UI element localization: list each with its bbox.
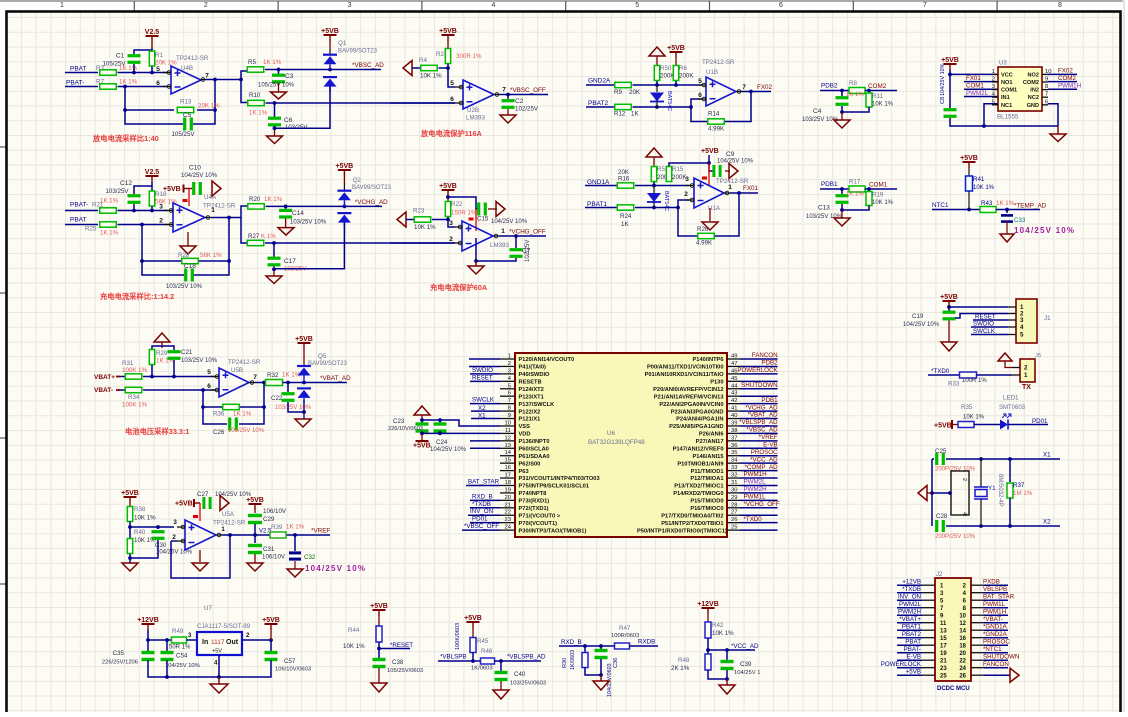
svg-text:104/25V 10%: 104/25V 10% bbox=[165, 663, 200, 669]
text discharge protection label bbox=[420, 129, 483, 138]
net label SHUTDOWN + wire bbox=[740, 382, 778, 389]
svg-text:1K 1%: 1K 1% bbox=[846, 192, 864, 198]
svg-text:SWCLK: SWCLK bbox=[472, 397, 495, 404]
resistor R33 bbox=[948, 372, 987, 388]
svg-text:104/25V/0603: 104/25V/0603 bbox=[607, 663, 613, 697]
diode D1 bbox=[647, 186, 669, 212]
resistor R5 bbox=[247, 59, 281, 72]
svg-text:+5VB: +5VB bbox=[439, 28, 457, 35]
net label PBAT1 bbox=[587, 201, 607, 208]
svg-text:226/25V/1206: 226/25V/1206 bbox=[102, 660, 138, 666]
net label *VBAT+ (J2 left) bbox=[897, 616, 922, 623]
svg-text:BAT54C: BAT54C bbox=[666, 91, 672, 111]
svg-text:1117: 1117 bbox=[211, 639, 225, 646]
wire V2.5 to R1/C1 bbox=[134, 48, 152, 54]
svg-text:1K/0603: 1K/0603 bbox=[471, 666, 493, 672]
svg-text:36: 36 bbox=[731, 443, 737, 449]
svg-text:2: 2 bbox=[172, 534, 176, 541]
svg-text:1: 1 bbox=[501, 228, 505, 235]
svg-text:7: 7 bbox=[253, 374, 257, 381]
svg-text:PWM2H: PWM2H bbox=[744, 486, 767, 493]
svg-text:6: 6 bbox=[779, 2, 783, 9]
svg-text:*VBSC_OFF: *VBSC_OFF bbox=[464, 523, 499, 530]
svg-text:45: 45 bbox=[731, 376, 737, 382]
wire FX01 to U3 pin2 bbox=[964, 81, 998, 83]
opamp supply red line U1A bbox=[702, 163, 709, 186]
svg-text:4: 4 bbox=[961, 512, 967, 515]
net label X2 + wire pin8 bbox=[471, 405, 500, 412]
svg-text:+5VB: +5VB bbox=[934, 423, 952, 430]
wire R32 to VBAT_AD bbox=[283, 381, 348, 385]
opamp supply red line U5A bbox=[193, 503, 200, 521]
svg-text:FANCON: FANCON bbox=[752, 352, 778, 359]
svg-text:P63: P63 bbox=[519, 469, 529, 475]
power +5VB (R38) bbox=[121, 490, 139, 503]
wire VSS rail bbox=[420, 418, 500, 426]
svg-text:U5A: U5A bbox=[222, 511, 235, 518]
svg-text:R20: R20 bbox=[249, 196, 261, 203]
power V2.5 (cluster2) bbox=[145, 169, 160, 182]
net label VCHG_OFF bbox=[509, 229, 546, 236]
feedback wire R26 bbox=[678, 193, 739, 236]
svg-text:47: 47 bbox=[731, 361, 737, 367]
op-amp U4A bbox=[159, 194, 236, 232]
svg-text:P71/(VCOUT0 >: P71/(VCOUT0 > bbox=[519, 513, 561, 519]
svg-text:VBAT-: VBAT- bbox=[94, 387, 113, 394]
svg-text:41: 41 bbox=[731, 406, 737, 412]
capacitor C7 bbox=[510, 236, 532, 262]
svg-text:R19: R19 bbox=[872, 192, 884, 199]
svg-text:VCC: VCC bbox=[1001, 72, 1013, 78]
svg-text:13: 13 bbox=[505, 443, 511, 449]
resistor R30 (bottom) bbox=[562, 646, 588, 670]
svg-text:C6: C6 bbox=[284, 117, 293, 124]
resistor R23 bbox=[406, 208, 436, 232]
resistor R9 bbox=[614, 82, 641, 96]
svg-text:20: 20 bbox=[959, 651, 966, 657]
svg-text:C21: C21 bbox=[181, 349, 193, 356]
svg-text:*VREF: *VREF bbox=[759, 434, 778, 441]
net label TXD0 + wire bbox=[740, 516, 778, 523]
svg-text:TP2412-SR: TP2412-SR bbox=[203, 203, 236, 210]
wire U4A output bbox=[211, 216, 241, 220]
svg-text:FX02: FX02 bbox=[757, 84, 773, 91]
capacitor C25 bbox=[935, 448, 947, 465]
wire R23/R22 to U2A +in bbox=[432, 217, 455, 227]
capacitor C19 bbox=[903, 307, 956, 328]
svg-text:RESETB: RESETB bbox=[519, 380, 542, 386]
svg-text:40: 40 bbox=[731, 413, 737, 419]
svg-text:+5VB: +5VB bbox=[413, 443, 431, 450]
svg-text:+5VB: +5VB bbox=[295, 336, 313, 343]
wire COM1 to U3 pin3 bbox=[964, 88, 998, 90]
svg-text:P140/INTP6: P140/INTP6 bbox=[693, 357, 724, 363]
svg-text:25: 25 bbox=[731, 525, 737, 531]
capacitor C27 bbox=[197, 491, 252, 509]
wire J2 pin26 to arrow bbox=[984, 668, 1019, 682]
svg-text:49: 49 bbox=[731, 354, 737, 360]
wire U1B out to FX02 bbox=[742, 90, 771, 94]
wire NTC1 to R43 bbox=[932, 191, 980, 211]
svg-text:PDB2: PDB2 bbox=[821, 83, 838, 90]
svg-text:10K 1%: 10K 1% bbox=[414, 224, 436, 231]
svg-text:19: 19 bbox=[505, 487, 511, 493]
capacitor C17 bbox=[268, 243, 307, 276]
svg-text:U5B: U5B bbox=[231, 367, 243, 374]
wire PBAT to R3 bbox=[65, 72, 98, 74]
power +12VB (U7) bbox=[137, 617, 159, 630]
svg-text:8: 8 bbox=[1045, 84, 1048, 90]
text LED1 designator bbox=[999, 395, 1026, 412]
ground R30/C36 bbox=[593, 675, 609, 690]
resistor R39 bbox=[270, 524, 305, 539]
svg-text:GND: GND bbox=[1027, 103, 1039, 109]
ground under C33 bbox=[1000, 221, 1014, 242]
net label COMP_AD + wire bbox=[740, 464, 778, 471]
svg-text:104/25V 10%: 104/25V 10% bbox=[717, 159, 754, 165]
svg-text:R34: R34 bbox=[128, 394, 140, 401]
svg-text:+5VB: +5VB bbox=[163, 186, 181, 193]
svg-text:P41/(TAI0): P41/(TAI0) bbox=[519, 365, 546, 371]
svg-text:42: 42 bbox=[731, 398, 737, 404]
wire R27 right bbox=[265, 241, 455, 245]
svg-text:*VBSC_AD: *VBSC_AD bbox=[352, 62, 384, 69]
svg-text:放电电流采样比1:40: 放电电流采样比1:40 bbox=[92, 134, 159, 143]
svg-text:NTC1: NTC1 bbox=[932, 202, 949, 209]
svg-text:R45: R45 bbox=[477, 638, 489, 645]
svg-text:1: 1 bbox=[992, 69, 995, 75]
connector J1 bbox=[1008, 299, 1051, 343]
ground under C19 bbox=[941, 342, 957, 351]
svg-text:7: 7 bbox=[923, 2, 927, 9]
svg-text:4.99K: 4.99K bbox=[708, 126, 725, 133]
wire C8 bottom rail bbox=[950, 118, 1058, 126]
svg-text:C32: C32 bbox=[304, 554, 316, 561]
svg-text:5: 5 bbox=[1020, 332, 1024, 339]
net label COM2 (U3) bbox=[1058, 75, 1076, 82]
svg-text:200K: 200K bbox=[679, 73, 694, 80]
svg-text:FX02: FX02 bbox=[1058, 68, 1073, 75]
resistor R41 bbox=[966, 168, 995, 191]
capacitor C18 bbox=[166, 263, 203, 290]
wire +5VB down to R15 top bbox=[669, 155, 730, 171]
svg-text:R50: R50 bbox=[660, 65, 672, 72]
svg-text:P62/S00: P62/S00 bbox=[519, 461, 541, 467]
power arrow right (U4A cap) bbox=[212, 181, 221, 196]
wire C4/R11 bottom bbox=[840, 106, 869, 120]
svg-text:17: 17 bbox=[505, 473, 511, 479]
svg-text:106/10V: 106/10V bbox=[262, 554, 286, 561]
svg-text:Q5: Q5 bbox=[318, 353, 327, 360]
svg-text:1: 1 bbox=[60, 2, 64, 9]
svg-text:P00/ANI11/TXD1/VCIN10TI00: P00/ANI11/TXD1/VCIN10TI00 bbox=[647, 365, 724, 371]
wire R25 to U4A -in bbox=[118, 223, 169, 227]
resistor R47 bbox=[611, 625, 639, 649]
wire C40 to gnd bbox=[500, 681, 502, 690]
wire MCU pin27 bbox=[740, 514, 778, 516]
svg-text:7: 7 bbox=[742, 84, 746, 91]
svg-text:33: 33 bbox=[731, 465, 737, 471]
svg-text:充电电流保护60A: 充电电流保护60A bbox=[430, 283, 488, 292]
resistor R42 bbox=[705, 614, 734, 638]
svg-text:105/25V 10%: 105/25V 10% bbox=[258, 83, 295, 89]
svg-text:2: 2 bbox=[1024, 365, 1028, 372]
svg-text:5: 5 bbox=[992, 99, 995, 105]
resistor R3 bbox=[96, 65, 138, 75]
svg-text:8: 8 bbox=[508, 406, 511, 412]
power arrow up (R51) bbox=[646, 148, 662, 157]
svg-text:C12: C12 bbox=[120, 180, 132, 187]
svg-text:P121/X1: P121/X1 bbox=[519, 417, 541, 423]
text battery sampling label bbox=[125, 427, 189, 436]
svg-text:R31: R31 bbox=[122, 360, 134, 367]
svg-text:DCDC MCU: DCDC MCU bbox=[937, 686, 970, 692]
svg-text:18: 18 bbox=[959, 643, 966, 649]
IC U6 BAT32G139LQFP48 bbox=[500, 353, 740, 537]
svg-text:P25/ANI5/PGA1GND: P25/ANI5/PGA1GND bbox=[669, 424, 723, 430]
svg-text:P30/INTP3/TAO/(TMIOB1): P30/INTP3/TAO/(TMIOB1) bbox=[519, 528, 587, 534]
net label FX01 (U3) bbox=[966, 75, 981, 82]
wire arrow to R29/C21 bbox=[152, 346, 174, 350]
net label PWM2L (U3) bbox=[966, 90, 989, 97]
svg-text:R33: R33 bbox=[948, 381, 960, 388]
capacitor C9 bbox=[712, 151, 753, 177]
svg-text:103/25V 10%: 103/25V 10% bbox=[275, 405, 312, 411]
power +5VB (R44) bbox=[370, 603, 388, 616]
wire PBAT to R25 bbox=[65, 224, 98, 226]
svg-text:C18: C18 bbox=[184, 263, 196, 270]
svg-text:R3: R3 bbox=[96, 65, 104, 72]
svg-text:10K 1%: 10K 1% bbox=[872, 200, 894, 206]
capacitor C57 bbox=[265, 640, 312, 673]
capacitor C12 bbox=[105, 180, 140, 204]
crystal package outline bbox=[932, 471, 969, 515]
svg-text:IN1: IN1 bbox=[1001, 95, 1010, 101]
svg-text:+5VB: +5VB bbox=[439, 183, 457, 190]
svg-text:38: 38 bbox=[731, 428, 737, 434]
text R35 designator bbox=[961, 404, 985, 421]
svg-text:*VBAT_AD: *VBAT_AD bbox=[320, 375, 351, 382]
resistor R14 bbox=[708, 111, 725, 133]
power +5VB down (C24) bbox=[413, 433, 431, 449]
capacitor C5 bbox=[171, 112, 195, 138]
svg-text:105/25V/0603: 105/25V/0603 bbox=[387, 668, 423, 674]
feedback wire U5A bbox=[171, 535, 230, 578]
power arrow left (crystal gnd) bbox=[918, 486, 932, 501]
wire -in up to pin6 bbox=[691, 99, 702, 107]
svg-text:20K 1%: 20K 1% bbox=[198, 103, 220, 110]
svg-text:RXD_B: RXD_B bbox=[472, 493, 493, 500]
svg-text:*VREF: *VREF bbox=[311, 528, 330, 535]
power arrow up (R50) bbox=[649, 47, 665, 56]
net label VBSC_AD bbox=[352, 62, 384, 69]
net label FX01 (U1A) bbox=[743, 185, 759, 192]
svg-text:P12/TMIOA1: P12/TMIOA1 bbox=[690, 476, 723, 482]
svg-text:1K 1%: 1K 1% bbox=[846, 92, 864, 98]
svg-text:P74/INPT8: P74/INPT8 bbox=[519, 491, 547, 497]
svg-text:NO2: NO2 bbox=[1027, 72, 1039, 78]
svg-text:V2.5: V2.5 bbox=[145, 29, 160, 36]
svg-text:14: 14 bbox=[505, 450, 512, 456]
svg-text:COM2: COM2 bbox=[1023, 80, 1039, 86]
resistor R46 bbox=[471, 648, 495, 672]
svg-text:100K 1%: 100K 1% bbox=[122, 402, 148, 409]
svg-text:+5VB: +5VB bbox=[940, 294, 958, 301]
svg-text:+5VB: +5VB bbox=[121, 490, 139, 497]
opamp supply red line U4A bbox=[183, 189, 190, 207]
net label INV_ON + wire pin22 bbox=[468, 508, 500, 515]
svg-text:31: 31 bbox=[731, 480, 737, 486]
svg-text:*VCHG_AD: *VCHG_AD bbox=[745, 404, 778, 411]
svg-text:15: 15 bbox=[505, 458, 511, 464]
svg-text:P137/SWCLK: P137/SWCLK bbox=[519, 402, 556, 408]
svg-text:*TXDB: *TXDB bbox=[472, 501, 491, 508]
capacitor C8 (U3) bbox=[940, 63, 957, 117]
svg-text:6: 6 bbox=[508, 391, 511, 397]
svg-text:C3: C3 bbox=[285, 73, 294, 80]
svg-text:150R 1%: 150R 1% bbox=[451, 210, 477, 217]
resistor R45 bbox=[470, 627, 489, 653]
wire R38/R40 node to U5A +in bbox=[128, 522, 174, 541]
svg-text:+5VB: +5VB bbox=[336, 163, 354, 170]
svg-text:3: 3 bbox=[159, 204, 163, 211]
net label V2.5 bbox=[259, 529, 272, 535]
net label VBLSPB (J2 right) bbox=[983, 586, 1008, 593]
svg-text:10K 1%: 10K 1% bbox=[872, 102, 894, 108]
svg-text:P31/VCOUT1/INTP4/TI03/TO03: P31/VCOUT1/INTP4/TI03/TO03 bbox=[519, 476, 600, 482]
svg-text:10: 10 bbox=[959, 613, 966, 619]
resistor R17 bbox=[849, 179, 865, 193]
svg-text:C28: C28 bbox=[936, 513, 948, 520]
net label BAT_STAR (J2 right) bbox=[983, 594, 1015, 601]
net label PWM1H + wire bbox=[740, 471, 778, 478]
svg-text:23: 23 bbox=[940, 666, 947, 672]
resistor R26 bbox=[696, 226, 714, 247]
svg-text:X2: X2 bbox=[478, 405, 486, 412]
svg-text:25: 25 bbox=[940, 673, 947, 679]
svg-text:1: 1 bbox=[221, 526, 225, 533]
wire U3 pin6 GND down bbox=[1048, 104, 1058, 126]
svg-text:充电电流采样比:1:14.2: 充电电流采样比:1:14.2 bbox=[100, 292, 174, 301]
svg-text:16: 16 bbox=[505, 465, 511, 471]
svg-text:100K/0603: 100K/0603 bbox=[455, 623, 461, 650]
capacitor C35 bbox=[102, 650, 155, 666]
svg-text:R22: R22 bbox=[451, 201, 463, 208]
svg-text:26: 26 bbox=[731, 517, 737, 523]
svg-text:C22: C22 bbox=[271, 395, 283, 402]
svg-text:18: 18 bbox=[505, 480, 511, 486]
svg-text:C40: C40 bbox=[514, 671, 526, 678]
net label GND1A bbox=[587, 169, 630, 186]
resistor R22 bbox=[445, 201, 477, 217]
svg-text:16: 16 bbox=[959, 636, 966, 642]
svg-text:R39: R39 bbox=[271, 524, 283, 531]
svg-text:200P/25V 10%: 200P/25V 10% bbox=[935, 534, 976, 540]
wire R43 to TEMP_AD bbox=[996, 208, 1040, 212]
wire +5VB to U3 pin1 bbox=[948, 70, 998, 76]
svg-text:R42: R42 bbox=[712, 622, 724, 629]
wire arrow to R51 bbox=[653, 157, 655, 167]
wire PBAT- to R7 bbox=[65, 86, 98, 88]
op-amp U5B bbox=[207, 359, 261, 397]
svg-text:C10: C10 bbox=[189, 165, 201, 172]
svg-text:R41: R41 bbox=[973, 176, 985, 183]
svg-text:30: 30 bbox=[731, 487, 737, 493]
svg-text:1K 1%: 1K 1% bbox=[263, 59, 282, 66]
wire Q2 bottom to C17 net bbox=[274, 223, 344, 269]
svg-text:R30: R30 bbox=[562, 658, 568, 668]
power arrow left (R4) bbox=[403, 61, 412, 76]
wire U2A out to VCHG_OFF bbox=[499, 234, 546, 238]
svg-text:R7: R7 bbox=[96, 79, 104, 86]
svg-text:INV_ON: INV_ON bbox=[470, 508, 493, 515]
svg-text:1K 1%: 1K 1% bbox=[100, 230, 119, 237]
ground under C32 bbox=[287, 569, 303, 577]
net label X1 (crystal) bbox=[1043, 452, 1051, 459]
svg-text:1K: 1K bbox=[631, 111, 639, 118]
wire MCU pin25 bbox=[740, 529, 778, 531]
svg-text:P17/TXD0/TMIOA0/TI02: P17/TXD0/TMIOA0/TI02 bbox=[661, 513, 723, 519]
dual diode Q2 BAV99 bbox=[337, 176, 391, 228]
wire MCU pin45 bbox=[740, 380, 778, 382]
svg-text:43: 43 bbox=[731, 391, 737, 397]
svg-text:TP2412-SR: TP2412-SR bbox=[716, 178, 749, 185]
net label VBAT+ bbox=[94, 374, 120, 381]
net label E-VB + wire bbox=[740, 441, 778, 448]
svg-text:V2.5: V2.5 bbox=[145, 169, 160, 176]
svg-text:1K 1%: 1K 1% bbox=[233, 411, 252, 418]
capacitor C1 bbox=[102, 53, 140, 68]
capacitor C31 bbox=[248, 535, 286, 563]
svg-text:28: 28 bbox=[731, 502, 737, 508]
op-amp U2B bbox=[450, 80, 506, 122]
power arrow right (C9) bbox=[729, 164, 738, 179]
net label VCHG_OFF + wire bbox=[740, 501, 780, 508]
svg-text:6: 6 bbox=[450, 96, 454, 103]
net label VBAT_AD + wire bbox=[740, 412, 778, 419]
svg-text:LM393: LM393 bbox=[490, 242, 509, 249]
svg-text:3: 3 bbox=[1020, 317, 1024, 324]
net label VBSC_OFF bbox=[510, 87, 546, 94]
svg-text:*VBSC_OFF: *VBSC_OFF bbox=[510, 87, 546, 94]
wire MCU pin12 bbox=[470, 440, 500, 442]
svg-text:C33: C33 bbox=[1014, 217, 1026, 224]
net label TXDB + wire pin21 bbox=[470, 501, 500, 508]
net label PXDB (J2 right) bbox=[983, 579, 1008, 586]
svg-text:R49: R49 bbox=[172, 628, 184, 635]
wire R16 to U1A +in bbox=[635, 182, 689, 187]
svg-text:*VCHG_AD: *VCHG_AD bbox=[355, 199, 388, 206]
svg-text:R46: R46 bbox=[481, 648, 493, 655]
ground U7 bbox=[210, 677, 228, 693]
svg-text:R12: R12 bbox=[614, 111, 626, 118]
svg-text:R9: R9 bbox=[614, 89, 622, 96]
svg-text:P136/INPT0: P136/INPT0 bbox=[519, 439, 550, 445]
svg-text:P01/ANI10RXD1/VCIN11/TAIO: P01/ANI10RXD1/VCIN11/TAIO bbox=[645, 372, 724, 378]
net label TXD0 (J5) bbox=[931, 368, 950, 375]
svg-text:U3: U3 bbox=[999, 61, 1007, 67]
wire MCU pin1 bbox=[469, 358, 500, 360]
svg-text:C19: C19 bbox=[912, 313, 924, 320]
wire TXD0 to R33 bbox=[928, 374, 960, 376]
text C33 value magenta bbox=[1014, 226, 1075, 235]
svg-text:U1B: U1B bbox=[706, 69, 718, 76]
svg-text:9: 9 bbox=[508, 413, 511, 419]
svg-text:P51/INTP2/TXD0/TBIO1: P51/INTP2/TXD0/TBIO1 bbox=[661, 521, 723, 527]
net label PWM1H (U3) bbox=[1058, 83, 1081, 90]
svg-text:2: 2 bbox=[204, 2, 208, 9]
net label INV_ON (J2 left) bbox=[897, 594, 922, 601]
